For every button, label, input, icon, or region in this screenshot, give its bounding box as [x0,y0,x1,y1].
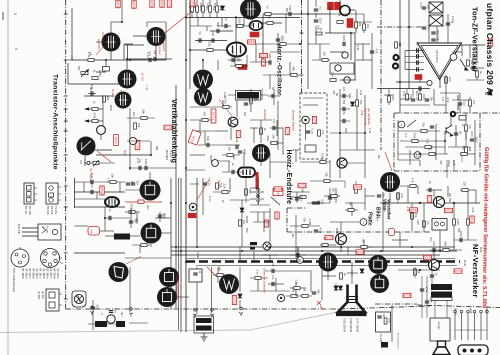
wire cluster top-left feed [68,0,166,60]
wire y199 [250,198,264,200]
wire tube V104 grid [235,16,237,43]
svg-text:blau: blau [485,308,489,314]
boundary tick [64,13,68,15]
resistor R111 [236,65,242,68]
svg-text:8,2k: 8,2k [213,3,217,9]
circled number 11 b [297,257,304,264]
svg-text:Lautspr.: Lautspr. [437,321,440,330]
wire y154 [398,153,448,155]
wire y33 [325,32,355,34]
red label 10T36 [232,296,236,305]
alignment pot circle [302,116,310,124]
svg-text:0,5: 0,5 [318,7,322,11]
red label 10T16 [347,19,353,28]
svg-text:15k: 15k [132,112,136,117]
capacitor C144 [419,86,421,90]
wire cluster osc left [250,14,300,89]
wire [149,172,151,179]
svg-text:0,5: 0,5 [224,17,228,21]
wire below stadium [245,177,247,203]
direction arrow A [484,89,493,96]
svg-text:30n: 30n [89,87,93,92]
svg-text:68k: 68k [468,147,472,152]
red marker bar [256,172,259,189]
capacitor C114 [225,24,227,28]
wire y131 [398,130,440,132]
svg-text:220: 220 [463,182,467,187]
relay box with contacts [432,219,447,231]
capacitor C126 [370,51,374,53]
wire cluster NF upper [400,186,476,203]
resistor R226 [410,185,416,188]
capacitor C150 [91,91,93,95]
wire y80 [340,79,356,81]
wire [190,183,199,185]
diode D170 [351,102,355,106]
resistor R215 [348,209,354,212]
capacitor C110 [217,29,219,33]
svg-text:470k: 470k [413,133,417,139]
wire x427 [426,276,428,318]
ZF area dash-dot vertical [380,0,382,150]
red label 10T25 [275,212,279,219]
tuner box dash-dot right [479,113,481,171]
svg-text:220: 220 [95,305,99,310]
svg-text:4,7k: 4,7k [406,206,410,212]
svg-text:3,3M: 3,3M [223,92,227,99]
wire [303,104,318,106]
junction v2 [130,211,132,213]
red label 10T20 [100,186,104,195]
tube PD500 V115 [141,223,162,244]
svg-text:12k: 12k [349,202,353,207]
wire y118 [127,117,155,119]
svg-text:M3 M15: M3 M15 [165,150,169,161]
IC input capacitors [405,50,424,52]
tube PCF802 V107 [240,0,261,20]
svg-text:50u: 50u [415,91,419,96]
diode D101 [221,6,225,10]
capacitor C140 [422,7,426,9]
svg-text:8,2k: 8,2k [90,173,94,179]
capacitor C206 [129,221,133,223]
red tilted label [188,130,201,145]
plug contact 2 [256,195,260,204]
wire [96,71,106,73]
wire left branch [67,63,69,84]
svg-text:10T5: 10T5 [168,0,172,7]
svg-text:Zeile: Zeile [196,252,200,259]
svg-text:470: 470 [416,220,420,225]
svg-text:MSH: MSH [335,228,339,234]
capacitor C176 [343,107,345,111]
resistor R227 [462,189,468,192]
resistor R213 [322,244,328,247]
wire [340,95,350,97]
resistor R201 [110,181,116,184]
svg-text:3,9k: 3,9k [348,93,352,99]
resistor R220 [411,213,414,219]
wire x130 [129,267,131,312]
svg-text:BF 199: BF 199 [50,206,54,215]
wire cluster vertikal right extra [190,120,244,172]
wire [107,323,116,325]
svg-text:Oval: Oval [90,229,92,234]
small box component [459,116,466,121]
electrolytic cap round [427,80,432,85]
svg-text:AF 26A: AF 26A [37,291,40,300]
resistor R175 [356,100,359,106]
boundary tick [64,206,68,208]
wire x130 [129,108,131,170]
svg-text:15k: 15k [199,3,203,8]
resistor R205 [216,183,219,189]
tube PCL85 V102 [147,27,166,46]
svg-text:1,5n: 1,5n [451,16,455,22]
svg-text:100: 100 [203,112,207,117]
svg-text:0,5: 0,5 [142,237,146,241]
svg-text:33k: 33k [303,218,307,223]
resistor R210 [324,180,330,183]
red label 10T28 [274,187,282,191]
boundary tick [64,95,68,97]
diode D230 [238,294,242,298]
tube EL95 V117 [380,172,400,192]
red label 10T1 [116,0,120,8]
terminal double circle [450,111,456,117]
svg-text:47n: 47n [271,275,275,280]
volume pot with arrow [460,59,468,70]
wire cluster right of triangle [452,45,484,80]
thick dashed supply bus [186,260,460,262]
wire y150 [340,149,375,151]
wire [127,45,129,59]
capacitor C231 [91,307,95,309]
svg-text:10T1: 10T1 [116,1,120,8]
svg-text:10T20: 10T20 [100,186,104,195]
capacitor C203 [91,180,93,184]
resistor R223 [443,249,449,252]
svg-text:47k: 47k [439,160,443,165]
tuner alignment dashed box [300,93,327,159]
resistor R188 [461,153,467,156]
svg-text:1M: 1M [272,119,276,123]
wire [105,60,107,71]
wire to tube [133,35,147,37]
plug contact 3 [129,308,133,317]
red label 10T5 [167,0,171,7]
plug contact 7 [239,307,243,316]
svg-text:Transistor-Anschlußpunkte: Transistor-Anschlußpunkte [52,74,59,170]
resistor R121 [267,22,273,25]
svg-text:12k: 12k [323,52,327,57]
capacitor C121 [314,9,318,11]
svg-text:BF 180 c: BF 180 c [39,269,42,280]
output transformer bars [431,284,452,301]
oscillator coil box [330,63,354,74]
capacitor C214 [295,198,299,200]
capacitor C178 [273,126,275,130]
svg-text:2,2n: 2,2n [258,8,262,14]
svg-text:56k: 56k [462,146,466,151]
red label 10T7b [335,2,341,10]
resistor R243 [255,277,261,280]
test point arrow 2 [84,119,89,122]
svg-text:Messinstrument: Messinstrument [397,333,400,349]
capacitor C213 [328,197,332,199]
wire x454 [453,203,455,250]
svg-text:10T6: 10T6 [191,0,195,6]
svg-text:BF 11A c: BF 11A c [28,269,31,280]
wire y222 [330,221,360,223]
wire crossing box [446,160,448,178]
svg-text:33k: 33k [228,147,232,152]
transistor AC151 Q220 [434,197,445,208]
svg-text:A 44-120 W: A 44-120 W [356,318,360,333]
wire x357 [356,89,358,150]
resistor R251 [414,269,417,275]
board boundary dash-dot vertical [65,0,67,309]
red curve lead [385,152,392,171]
svg-text:22n: 22n [429,237,433,242]
wire y296 [286,295,312,297]
resistor R103 [92,77,98,80]
resistor R172 [318,130,321,136]
tube EM84 V104 [227,43,246,57]
wire y88.5 [377,88,430,90]
red label 10T8 [488,39,492,46]
wire y226 [290,225,320,227]
svg-text:0,1u: 0,1u [415,48,419,54]
red cross marks [317,301,323,309]
svg-text:68k: 68k [142,110,146,115]
capacitor C223 [377,195,381,197]
vertical bus line 4 [170,178,172,309]
wire y155 [96,154,151,156]
wire [260,162,262,166]
red label 10T15 [273,189,283,196]
svg-text:OA95: OA95 [245,216,249,224]
wire [305,124,307,140]
red label DC13 [164,125,172,130]
circled number 1 [398,121,405,128]
wire [88,323,95,325]
svg-text:4u7: 4u7 [120,312,124,317]
wire y253 [74,252,125,254]
svg-text:8,2k: 8,2k [320,200,324,206]
wire [414,267,416,278]
svg-text:33k: 33k [111,174,115,179]
svg-text:0,1u: 0,1u [256,270,260,276]
resistor R171 [260,128,263,134]
capacitor C241 [312,292,316,294]
svg-text:4,7k: 4,7k [411,178,415,184]
round pinout socket 2 [41,249,64,268]
bildroehre area dash-dot top [287,207,307,209]
wire y145 [225,144,240,146]
red label 10T32 [445,208,453,212]
svg-text:Horiz.-Endstufe: Horiz.-Endstufe [285,150,292,205]
red label 10T19 [261,59,265,66]
resistor R216 [331,195,337,198]
svg-text:B-0,3: B-0,3 [460,155,464,162]
wire y270 [398,269,440,271]
svg-text:4,7k: 4,7k [471,207,475,213]
wire [355,10,357,22]
svg-text:2,2k: 2,2k [295,280,299,286]
red label 10T31 [427,196,431,203]
transistor Q122 [335,65,341,71]
wire step down [123,44,125,60]
wire to bar [228,94,236,96]
wire y82 [396,81,432,83]
capacitor C142 [446,23,450,25]
capacitor C210 [312,202,316,204]
wire x392 [391,305,393,342]
wire [161,232,171,234]
capacitor C122 [314,20,318,22]
svg-text:125V: 125V [268,54,272,60]
svg-text:3,3n: 3,3n [432,241,436,247]
wire to tube [340,245,342,253]
wire y245 [320,244,336,246]
boundary tick [64,252,68,254]
transistor symbol in tuner [446,125,453,136]
svg-text:10T30: 10T30 [356,250,365,254]
svg-text:0,5: 0,5 [79,160,83,164]
red label 10T6 [190,0,194,6]
red label 10T7a [328,2,334,10]
resistor R221 [423,221,426,227]
capacitor C233 [109,311,113,313]
tube EL504 V121 [369,255,388,274]
wire [315,0,317,7]
red vertical trace [176,275,178,300]
red label 10T14 [285,128,289,135]
resistor R101 [88,59,94,62]
wire x103 [102,96,104,131]
hatched screw circle 2 [74,294,83,303]
wire y141 [400,140,445,142]
svg-text:10T27: 10T27 [353,185,362,189]
junction b [453,202,455,204]
wire from choke [130,235,140,237]
wire across speaker leads [455,329,487,331]
svg-text:Bildr.-: Bildr.- [375,207,381,222]
wire x240 [239,267,241,292]
capacitor C212 [314,230,318,232]
wire x446 [445,75,447,113]
wire y131 [215,130,228,132]
capacitor C160 [139,166,141,170]
svg-text:Verstärker: Verstärker [387,199,392,220]
wire x424 [423,203,425,232]
resistor R178 [245,189,248,195]
svg-text:M 3k: M 3k [463,260,467,267]
wire [412,89,414,97]
tuner box dash-dot stub [457,95,459,113]
red label 10T4 [160,0,164,7]
svg-text:0,22: 0,22 [402,91,406,97]
wire y192 [75,191,126,193]
svg-text:10T18: 10T18 [259,54,268,58]
capacitor box N [189,269,202,282]
svg-text:220: 220 [415,42,419,47]
svg-text:0,5: 0,5 [468,125,472,129]
wire horizontal rail y17.5 [187,17,300,19]
wire [315,13,317,18]
wire x263 [262,14,264,62]
bildroehre area dash-dot left [286,208,288,232]
svg-text:10T2: 10T2 [132,1,136,8]
svg-text:0,5: 0,5 [426,221,430,225]
svg-text:190V: 190V [242,149,246,155]
wire [229,178,231,192]
red filled label 3 [238,65,247,70]
tube EAA91 V113 [105,197,119,207]
wire y96 [84,95,110,97]
svg-text:10T32: 10T32 [444,209,453,213]
capacitor C242 [272,282,274,286]
svg-text:2,2n: 2,2n [419,2,423,8]
capacitor C172 [306,131,310,133]
wire y161 [211,160,230,162]
resistor R242 [340,273,343,279]
red label 10T33 [410,208,418,212]
wire y205 [250,204,270,206]
tube PL36 V111 [252,144,270,162]
tube PY88 V106 [194,88,212,106]
svg-text:2,2k: 2,2k [317,25,321,31]
loudspeaker symbol [433,341,450,355]
svg-text:47n: 47n [415,54,419,59]
svg-text:M8: M8 [92,141,96,145]
svg-text:0,1u: 0,1u [208,196,212,202]
red leader from deflection unit [126,257,141,265]
svg-text:47n: 47n [472,100,476,105]
red label 10T2 [132,1,136,9]
junction a [419,202,421,204]
resistor R180 [421,130,427,133]
resistor R150 [103,96,106,102]
svg-text:56k: 56k [272,135,276,140]
wire [177,296,189,298]
ferrite choke 4 [116,321,125,327]
resistor R161 [141,117,147,120]
pot small [93,160,99,167]
junction c [419,269,421,271]
svg-text:220: 220 [391,96,395,101]
svg-text:68k: 68k [358,22,362,27]
svg-text:20k: 20k [77,66,81,71]
capacitor C175 [343,94,345,98]
svg-text:4,7k: 4,7k [426,25,430,31]
transistor package drawing BLK340 [22,224,61,240]
wire [350,33,352,60]
wire y190 [125,189,161,191]
wire [409,150,411,165]
svg-text:AF 200 c: AF 200 c [49,269,52,280]
wire y271 [265,270,310,272]
wire input join [404,51,406,70]
svg-text:4,7k: 4,7k [248,101,252,107]
svg-text:1: 1 [400,123,402,127]
wire x203 [202,178,204,215]
svg-text:125V: 125V [98,70,102,77]
ferrite choke 3 [95,321,107,327]
transistor Q150 [97,126,106,135]
wire vertical feed [71,8,73,60]
